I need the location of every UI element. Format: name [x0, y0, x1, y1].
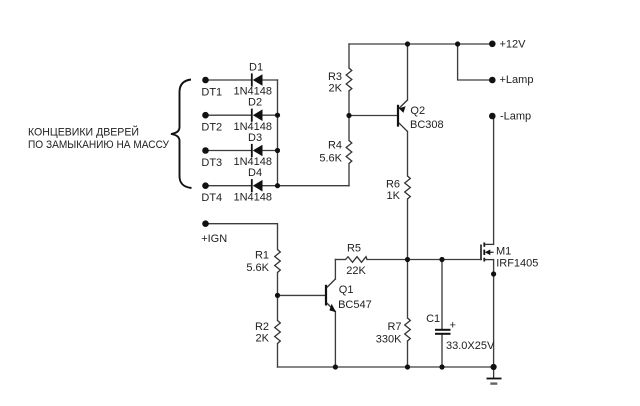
wire +IGN to R1 column — [206, 224, 278, 250]
svg-text:DT1: DT1 — [201, 86, 222, 98]
wire M1 source vertical — [493, 260, 495, 367]
svg-text:C1: C1 — [426, 313, 440, 325]
wire -Lamp to M1 drain — [493, 119, 495, 244]
wire Q1 emitter vertical — [334, 312, 336, 368]
svg-text:R1: R1 — [255, 250, 269, 262]
svg-text:R4: R4 — [328, 140, 342, 152]
wire Q1 collector vertical — [334, 260, 336, 280]
node DT4 terminal dot — [202, 182, 209, 189]
wire R3-R4 junction segment — [348, 91, 350, 141]
wire D3 cathode-out to bus — [263, 150, 278, 152]
node +12V terminal dot — [489, 41, 496, 48]
node +Lamp terminal dot — [489, 77, 496, 84]
mosfet M1 body junction dot — [491, 271, 496, 276]
resistor R3 — [346, 68, 352, 91]
svg-text:D4: D4 — [248, 167, 262, 179]
svg-text:1N4148: 1N4148 — [234, 191, 273, 203]
brace door switches — [171, 80, 192, 189]
diode D3 — [252, 144, 263, 157]
svg-text:2K: 2K — [329, 83, 343, 95]
svg-text:1N4148: 1N4148 — [234, 156, 273, 168]
svg-text:R7: R7 — [387, 321, 401, 333]
svg-text:33.0X25V: 33.0X25V — [446, 340, 495, 352]
svg-text:-Lamp: -Lamp — [500, 110, 531, 122]
svg-text:1K: 1K — [387, 190, 401, 202]
wire DT2 row — [206, 114, 252, 116]
wire R7 bottom segment — [407, 341, 409, 367]
node DT1 terminal dot — [202, 77, 209, 84]
node +IGN terminal dot — [202, 220, 209, 227]
wire Q2 collector to R6 — [407, 132, 409, 177]
node DT2 terminal dot — [202, 112, 209, 119]
svg-text:КОНЦЕВИКИ ДВЕРЕЙ: КОНЦЕВИКИ ДВЕРЕЙ — [28, 126, 139, 139]
svg-text:+IGN: +IGN — [201, 233, 227, 245]
wire R7 top segment — [407, 260, 409, 319]
svg-text:R5: R5 — [347, 242, 361, 254]
wire D2 cathode-out to bus — [263, 114, 278, 116]
junction gate row R6-R7 — [405, 257, 410, 262]
diode D2 — [252, 109, 263, 122]
junction bottom rail ground — [491, 364, 497, 370]
resistor R2 — [275, 321, 281, 344]
transistor Q1 — [326, 279, 336, 312]
svg-text:Q2: Q2 — [410, 105, 425, 117]
svg-text:1N4148: 1N4148 — [234, 121, 273, 133]
svg-text:ПО ЗАМЫКАНИЮ НА МАССУ: ПО ЗАМЫКАНИЮ НА МАССУ — [28, 139, 170, 151]
svg-text:22K: 22K — [346, 265, 366, 277]
svg-text:DT2: DT2 — [201, 122, 222, 134]
svg-text:D1: D1 — [249, 61, 263, 73]
wire diode bus vertical — [277, 80, 279, 186]
wire gate row left — [335, 259, 345, 261]
junction bus-D3 — [275, 148, 280, 153]
wire DT3 row — [206, 150, 252, 152]
junction R3-R4 base — [346, 113, 351, 118]
svg-text:R3: R3 — [328, 71, 342, 83]
svg-text:+: + — [450, 320, 456, 332]
wire R6 bottom to gate row junction — [407, 199, 409, 260]
svg-text:1N4148: 1N4148 — [234, 86, 273, 98]
capacitor C1 — [435, 330, 451, 334]
junction top rail Q2 emitter — [405, 41, 410, 46]
svg-text:+12V: +12V — [500, 38, 527, 50]
svg-text:M1: M1 — [496, 246, 511, 258]
resistor R7 — [405, 318, 411, 341]
wire bottom rail — [278, 366, 494, 368]
wire R3 top to rail — [348, 44, 350, 68]
junction gate row C1 — [439, 257, 444, 262]
wire +Lamp branch — [458, 44, 492, 80]
wire DT4 row — [206, 185, 252, 187]
junction bottom rail C1 — [439, 364, 444, 369]
resistor R6 — [405, 176, 411, 199]
wire C1 top segment — [441, 260, 443, 330]
node -Lamp terminal dot — [489, 113, 496, 120]
resistor R1 — [275, 250, 281, 273]
junction top rail +Lamp branch — [455, 41, 460, 46]
svg-text:5.6K: 5.6K — [319, 153, 342, 165]
svg-text:5.6K: 5.6K — [246, 262, 269, 274]
junction bus-D4 — [275, 183, 280, 188]
resistor R4 — [346, 141, 352, 164]
ground — [487, 367, 502, 384]
mosfet M1 — [481, 243, 494, 262]
svg-text:DT4: DT4 — [201, 192, 222, 204]
wire R4 bottom segment — [348, 164, 350, 186]
wire top +12V rail — [349, 43, 492, 45]
wire gate row middle — [367, 259, 481, 261]
svg-text:R2: R2 — [255, 321, 269, 333]
junction bus-D2 — [275, 113, 280, 118]
svg-text:D3: D3 — [248, 132, 262, 144]
wire R2 bottom segment — [277, 344, 279, 368]
node DT3 terminal dot — [202, 147, 209, 154]
svg-text:D2: D2 — [248, 97, 262, 109]
wire DT1 row — [206, 79, 252, 81]
diode D1 — [252, 73, 263, 86]
wire R1-R2 junction segment — [277, 273, 279, 321]
svg-text:BC308: BC308 — [410, 119, 444, 131]
junction bottom rail Q1 emitter — [333, 364, 338, 369]
wire D1 cathode-out to bus — [263, 79, 278, 81]
svg-text:DT3: DT3 — [201, 157, 222, 169]
transistor Q2 — [398, 100, 408, 132]
svg-text:R6: R6 — [386, 179, 400, 191]
wire Q1 base — [278, 294, 326, 296]
svg-text:330K: 330K — [376, 333, 402, 345]
svg-text:IRF1405: IRF1405 — [496, 257, 538, 269]
resistor R5 — [346, 257, 368, 263]
wire Q2 base — [349, 115, 397, 117]
diode D4 — [252, 179, 263, 192]
junction bottom rail R7 — [405, 364, 410, 369]
svg-text:+Lamp: +Lamp — [500, 74, 534, 86]
wire Q2 emitter vertical — [407, 44, 409, 100]
svg-text:BC547: BC547 — [338, 299, 372, 311]
svg-text:2K: 2K — [256, 333, 270, 345]
wire D4 row to R4 bottom — [263, 185, 350, 187]
wire C1 bottom segment — [441, 335, 443, 368]
svg-text:Q1: Q1 — [339, 284, 354, 296]
junction R1-R2 Q1 base — [275, 293, 280, 298]
